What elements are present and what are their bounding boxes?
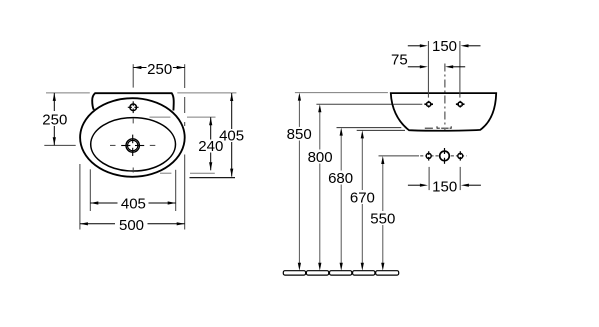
svg-text:250: 250 [147, 61, 172, 78]
washbasin body (elevation) [391, 93, 496, 131]
node: plan horizontal centerline segments [44, 144, 155, 146]
dimension 150 bottom (elevation): extension lines [429, 167, 460, 190]
dimension 550 (elevation) [370, 156, 395, 271]
wire: 800 extension line [316, 103, 422, 105]
svg-text:75: 75 [391, 51, 408, 68]
dimension 150 top (elevation): extension lines [428, 41, 460, 98]
node: plan vertical centerline segments [132, 64, 134, 172]
dimension 250 top (plan): dimension line and arrows [133, 61, 184, 78]
wire: 800 ext continues inside basin to tap hole [394, 103, 423, 105]
fixing hole left (elevation) [426, 151, 431, 160]
floor hatch strip [283, 271, 398, 275]
svg-text:250: 250 [42, 112, 67, 129]
dimension 680 (elevation) [328, 128, 353, 271]
tap hole right (elevation) [456, 101, 465, 108]
dimension 500 bottom (plan): dimension line and arrows [80, 217, 185, 234]
dimension 405 bottom (plan): dimension line and arrows [90, 196, 175, 213]
wire: 680 extension line [337, 127, 402, 129]
dimension 405 right (plan): dimension line and arrows [219, 93, 244, 177]
svg-text:680: 680 [328, 170, 353, 187]
dimension 405 right (plan): bottom reference line [190, 177, 236, 179]
dimension 250 top (plan): extension lines [184, 64, 186, 88]
dimension 250 left (plan) [42, 93, 67, 145]
dimension 75 (elevation): dimension line, arrows, text [391, 51, 465, 68]
dimension 500 bottom (plan): extension lines [80, 97, 185, 230]
svg-text:405: 405 [121, 196, 146, 213]
svg-text:670: 670 [350, 189, 375, 206]
wire: top reference line right of basin (ext of 405 right dim) [177, 92, 236, 94]
svg-text:850: 850 [287, 126, 312, 143]
dimension 405 bottom (plan): extension lines [90, 169, 175, 211]
dimension 240 right (plan): extension lines [150, 117, 216, 173]
drain symbol (plan) [121, 135, 144, 156]
svg-text:500: 500 [119, 217, 144, 234]
dimension 150 top (elevation): dimension line, arrows, text [408, 38, 481, 55]
wire: 550 extension line [379, 155, 420, 157]
dimension 240 right (plan): dimension line and arrows [198, 117, 223, 170]
wire: 850 extension line [295, 92, 388, 94]
node: lower holes centerline (dashed) [420, 155, 466, 157]
svg-text:800: 800 [308, 149, 333, 166]
drain hole centre (elevation) [440, 148, 450, 164]
svg-text:405: 405 [219, 128, 244, 145]
node: elevation centerline (dash-dot) [444, 64, 446, 131]
dimension 670 (elevation) [350, 130, 375, 270]
wire: 670 extension line [357, 129, 405, 131]
tap hole left (elevation) [424, 101, 433, 108]
washbasin back tab (plan) [92, 93, 174, 110]
drain outline hidden (elevation, dashed) [425, 126, 452, 128]
dimension 850 (elevation) [287, 93, 312, 271]
dimension 150 bottom (elevation): dimension line, arrows, text [408, 178, 481, 195]
wire: top reference line left of basin (ext of 250 left dim) [46, 92, 236, 94]
svg-text:150: 150 [432, 38, 457, 55]
tap hole symbol (plan) [128, 101, 139, 113]
fixing hole right (elevation) [458, 151, 463, 160]
washbasin inner bowl (plan) [91, 118, 176, 171]
svg-text:150: 150 [432, 178, 457, 195]
svg-text:550: 550 [370, 211, 395, 228]
washbasin outer rim (plan) [80, 98, 185, 177]
dimension 800 (elevation) [308, 104, 333, 271]
